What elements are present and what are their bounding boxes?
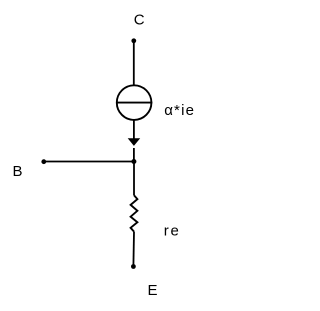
wire arrow to node B junction bbox=[133, 148, 135, 162]
wire C terminal to current source bbox=[133, 41, 135, 85]
junction dot node B bbox=[131, 159, 136, 164]
svg-text:α*ie: α*ie bbox=[164, 102, 195, 119]
wire current source to arrow bbox=[133, 120, 135, 139]
wire junction to resistor bbox=[133, 162, 135, 196]
resistor re bbox=[131, 195, 138, 231]
wire node B to junction bbox=[44, 161, 134, 163]
current source bar bbox=[116, 102, 152, 104]
svg-text:re: re bbox=[164, 222, 181, 239]
svg-text:E: E bbox=[148, 282, 158, 299]
wire resistor to node E terminal bbox=[132, 232, 135, 267]
current source circle bbox=[117, 85, 152, 120]
current source arrow bbox=[128, 138, 141, 146]
svg-text:C: C bbox=[134, 11, 145, 28]
terminal dot node B bbox=[41, 159, 46, 164]
terminal dot node C bbox=[131, 38, 136, 43]
svg-text:B: B bbox=[13, 163, 23, 180]
terminal dot node E bbox=[131, 264, 136, 269]
